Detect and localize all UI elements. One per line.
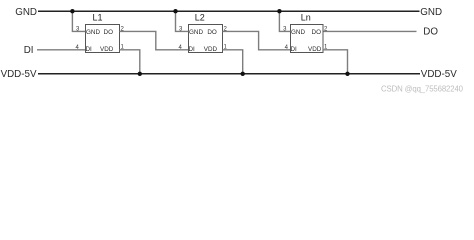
junction dot L2 VDD <box>241 72 245 76</box>
IC Ln body <box>291 25 324 53</box>
IC L2 body <box>189 25 223 53</box>
junction dot L2 GND <box>173 9 177 13</box>
svg-text:DO: DO <box>423 27 438 38</box>
junction dot L1 VDD <box>138 72 142 76</box>
wire GND bus <box>38 10 420 12</box>
wire pin3 to GND bus <box>279 11 290 31</box>
svg-text:GND: GND <box>189 29 203 36</box>
svg-text:VDD: VDD <box>204 46 218 53</box>
svg-text:VDD-5V: VDD-5V <box>421 69 457 80</box>
svg-text:GND: GND <box>15 7 37 18</box>
junction dot L1 GND <box>70 9 74 13</box>
svg-text:GND: GND <box>86 29 100 36</box>
svg-text:GND: GND <box>420 7 442 18</box>
wire pin1 to VDD bus <box>223 50 243 74</box>
svg-text:VDD: VDD <box>308 46 322 53</box>
IC L1 body <box>86 25 120 53</box>
svg-text:VDD: VDD <box>100 46 114 53</box>
svg-text:DI: DI <box>189 46 196 53</box>
svg-text:L1: L1 <box>92 13 102 23</box>
wire L2 DO to next DI <box>223 31 291 49</box>
svg-text:VDD-5V: VDD-5V <box>1 69 37 80</box>
svg-text:DO: DO <box>207 29 217 36</box>
module L2 <box>173 9 290 76</box>
wire DI input <box>37 49 86 51</box>
wire pin3 to GND bus <box>72 11 85 31</box>
wire pin1 to VDD bus <box>323 50 348 74</box>
module Ln <box>277 9 350 76</box>
svg-text:DI: DI <box>86 46 93 53</box>
wire pin1 to VDD bus <box>120 50 140 74</box>
svg-text:DO: DO <box>104 29 114 36</box>
wire L1 DO to next DI <box>120 31 189 49</box>
svg-text:DI: DI <box>24 45 34 56</box>
svg-text:L2: L2 <box>195 13 205 23</box>
junction dot Ln VDD <box>345 72 349 76</box>
junction dot Ln GND <box>277 9 281 13</box>
svg-text:CSDN @qq_755682240: CSDN @qq_755682240 <box>381 85 464 94</box>
module L1 <box>70 9 188 76</box>
wire pin3 to GND bus <box>176 11 189 31</box>
svg-text:DI: DI <box>291 46 298 53</box>
wire DO output <box>323 30 417 32</box>
svg-text:Ln: Ln <box>301 13 311 23</box>
svg-text:GND: GND <box>291 29 305 36</box>
wire VDD-5V bus <box>38 73 420 75</box>
svg-text:DO: DO <box>312 29 322 36</box>
